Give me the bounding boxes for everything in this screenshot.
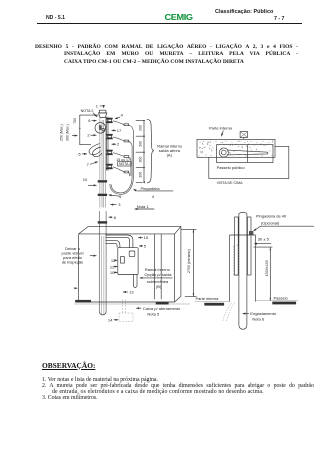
dimension 700 / 250-300 chain bbox=[60, 115, 99, 145]
meter box (section, dashed) bbox=[234, 245, 239, 275]
callout 6 (loops) bbox=[78, 152, 87, 157]
passeio outline step bbox=[209, 146, 289, 178]
pole (lower elevation, below break) bbox=[99, 211, 106, 315]
svg-text:Pingadeira de 40: Pingadeira de 40 bbox=[256, 214, 287, 219]
svg-text:1: 1 bbox=[96, 104, 99, 109]
callout 7 bbox=[87, 162, 98, 167]
svg-text:Parte interna: Parte interna bbox=[209, 125, 233, 130]
pole (upper elevation) bbox=[99, 110, 106, 207]
pole clamp band A bbox=[98, 180, 107, 182]
conduit right (section) bbox=[247, 217, 251, 275]
ground hatch bar mid bbox=[156, 302, 169, 305]
ground hatch bar left bbox=[75, 300, 91, 303]
masonry speckles bbox=[199, 141, 273, 157]
callout 12 bbox=[110, 264, 117, 269]
pole square (plan) bbox=[240, 132, 247, 140]
conduit left (section) bbox=[235, 217, 239, 275]
label Ramal interno opcao B bbox=[144, 267, 172, 289]
svg-text:30 ± 5: 30 ± 5 bbox=[258, 237, 270, 242]
mureta wall (3D) top edges bbox=[79, 226, 181, 234]
svg-text:de inspeção: de inspeção bbox=[62, 260, 84, 265]
svg-text:Opção p/ saída: Opção p/ saída bbox=[144, 272, 172, 277]
svg-text:Passeio: Passeio bbox=[274, 296, 289, 301]
box window bbox=[129, 251, 135, 257]
svg-text:7: 7 bbox=[87, 162, 90, 167]
ground hatch bar passeio bbox=[272, 302, 296, 305]
svg-text:700: 700 bbox=[73, 118, 77, 124]
header rule bbox=[37, 23, 302, 24]
secondary rack bar bbox=[106, 117, 108, 171]
svg-text:Passeio público: Passeio público bbox=[217, 165, 246, 170]
svg-text:4: 4 bbox=[143, 181, 145, 185]
weatherhead (cabecote) bbox=[99, 113, 107, 118]
brace for ramal interno A bbox=[147, 119, 154, 183]
svg-text:Engastamento: Engastamento bbox=[250, 311, 277, 316]
svg-text:8: 8 bbox=[114, 215, 117, 220]
svg-text:Parte interna: Parte interna bbox=[196, 296, 220, 301]
meter bbox=[121, 257, 125, 264]
dimension chain 200 x4 bbox=[136, 120, 145, 184]
NOTA 4 boxed label bbox=[118, 162, 132, 166]
NOTA 2 label bbox=[81, 109, 98, 117]
pole clamp band C bbox=[98, 221, 107, 223]
callout 14 bbox=[108, 317, 118, 322]
svg-text:200: 200 bbox=[139, 157, 143, 163]
label Pingadeira de 40 bbox=[253, 214, 314, 232]
svg-text:300 (Máx.): 300 (Máx.) bbox=[65, 124, 69, 141]
svg-text:Nota 1: Nota 1 bbox=[137, 204, 150, 209]
callout 15 bbox=[138, 235, 149, 240]
svg-text:6: 6 bbox=[88, 118, 91, 123]
callout 11 bbox=[111, 258, 117, 263]
svg-text:200: 200 bbox=[139, 141, 143, 147]
ground line passeio bbox=[255, 300, 298, 302]
callout 5 (elbow) bbox=[139, 244, 147, 249]
header: page number bbox=[274, 16, 284, 22]
svg-text:Caixa p/ aterramento: Caixa p/ aterramento bbox=[143, 306, 181, 311]
label 15 ou 17 bbox=[116, 158, 130, 162]
wire connector 4 bbox=[124, 171, 129, 173]
ground line (left view) bbox=[74, 303, 190, 305]
callout 2 (pole) bbox=[87, 133, 96, 138]
pole clamp band B bbox=[98, 194, 107, 196]
conduit sweep (plan) bbox=[219, 148, 268, 157]
dimension 1500 +- 100 bbox=[265, 247, 271, 301]
header: CEMIG logo bbox=[165, 12, 193, 21]
wire connector 2 bbox=[124, 140, 129, 142]
header: classification bbox=[215, 9, 273, 15]
svg-text:Nota 5: Nota 5 bbox=[147, 312, 160, 317]
dashed conduit under wall bbox=[223, 303, 235, 322]
svg-text:Nota 6: Nota 6 bbox=[252, 317, 265, 322]
service wires from insulators bbox=[113, 121, 133, 177]
document title bbox=[35, 44, 298, 67]
label Caixa p/ aterramento bbox=[136, 306, 181, 317]
svg-text:subterrânea: subterrânea bbox=[147, 279, 169, 284]
callout 5 (loop) bbox=[109, 194, 123, 199]
observation notes bbox=[42, 361, 95, 370]
svg-text:5: 5 bbox=[119, 194, 122, 199]
callout 2 (rack) bbox=[112, 142, 120, 147]
mureta wall bottom edges bbox=[79, 296, 181, 302]
insulator (roldana) 3 bbox=[107, 150, 113, 155]
pole (section) bbox=[239, 212, 247, 329]
dimension 30 +- 5 bbox=[254, 237, 273, 247]
detail circle on pole bbox=[95, 123, 106, 134]
ground line interna bbox=[195, 301, 230, 303]
svg-text:2: 2 bbox=[117, 142, 120, 147]
svg-text:(A): (A) bbox=[167, 152, 173, 157]
Nota 1 label bbox=[135, 204, 155, 209]
callout 10 (box) bbox=[110, 270, 117, 275]
svg-text:2700 (mínimo): 2700 (mínimo) bbox=[187, 249, 191, 273]
callout 17 bbox=[112, 128, 122, 133]
svg-text:15: 15 bbox=[144, 235, 149, 240]
svg-text:NOTA 2: NOTA 2 bbox=[81, 109, 94, 113]
svg-text:200: 200 bbox=[139, 125, 143, 131]
Pingadeira label bbox=[134, 186, 174, 199]
callout 13 bbox=[123, 290, 134, 295]
callout 10 bbox=[83, 177, 97, 186]
svg-text:(Opcional): (Opcional) bbox=[261, 221, 280, 226]
svg-text:VISTA DE CIMA: VISTA DE CIMA bbox=[217, 181, 243, 185]
svg-text:Pingadeira: Pingadeira bbox=[141, 186, 161, 191]
dimension 2700 minimo bbox=[181, 229, 197, 296]
leader option B bbox=[140, 277, 173, 279]
svg-text:3: 3 bbox=[118, 202, 121, 207]
svg-text:Ramal interno: Ramal interno bbox=[145, 267, 171, 272]
svg-text:4: 4 bbox=[152, 194, 155, 199]
svg-text:5: 5 bbox=[144, 244, 147, 249]
callout 6 (upper) bbox=[88, 118, 96, 123]
meter box CM bbox=[118, 248, 138, 275]
svg-text:4: 4 bbox=[121, 113, 124, 118]
svg-text:2: 2 bbox=[87, 133, 90, 138]
label Deixar o poste visivel bbox=[61, 246, 84, 265]
label Ramal interno saida aerea (A) bbox=[157, 144, 183, 158]
svg-text:1500±100: 1500±100 bbox=[265, 260, 269, 276]
dashed caixa de aterramento bbox=[119, 313, 133, 322]
meter box (plan) bbox=[217, 145, 273, 163]
svg-text:250 (Máx.): 250 (Máx.) bbox=[60, 124, 64, 141]
label Parte interna (plan) bbox=[209, 125, 233, 136]
conduit elbow 1 (pole to box) bbox=[105, 235, 132, 248]
callout 8 bbox=[109, 215, 117, 220]
ground hatch bar interna bbox=[204, 303, 224, 306]
label Engastamento Nota 6 bbox=[243, 311, 277, 321]
insulator (roldana) 1 bbox=[107, 118, 113, 123]
insulator (roldana) 4 bbox=[107, 164, 113, 169]
service drip loop (big) bbox=[110, 176, 134, 194]
svg-text:17: 17 bbox=[117, 128, 122, 133]
svg-text:10: 10 bbox=[83, 177, 88, 182]
callout 4 (rack top) bbox=[115, 113, 124, 119]
arrow for Deixar o poste bbox=[90, 255, 97, 257]
header: document number bbox=[46, 15, 65, 21]
wall edge arrow mark bbox=[74, 287, 77, 289]
svg-text:6: 6 bbox=[78, 152, 81, 157]
svg-text:13: 13 bbox=[129, 290, 134, 295]
insulator (roldana) 2 bbox=[107, 134, 113, 139]
wire connector 1 bbox=[124, 124, 129, 126]
wall section bbox=[230, 235, 256, 302]
masonry speckles extra bbox=[199, 140, 273, 157]
svg-text:(B): (B) bbox=[156, 284, 162, 289]
svg-text:200: 200 bbox=[139, 172, 143, 178]
svg-text:NOTA 4: NOTA 4 bbox=[119, 162, 131, 166]
callout 1 bbox=[96, 104, 104, 109]
callout 3 bbox=[110, 202, 121, 207]
svg-text:14: 14 bbox=[108, 317, 113, 322]
wall band (plan) bbox=[197, 139, 275, 157]
pingadeira lip bbox=[249, 232, 253, 236]
wire connector 3 bbox=[124, 156, 129, 158]
conduit below box (option B) bbox=[133, 275, 137, 288]
mureta wall vertical edges bbox=[79, 226, 181, 302]
drip loop wires at pole bbox=[89, 144, 102, 157]
dashed ground conduit bbox=[122, 300, 125, 314]
conduit elbow 2 (pole to box) bbox=[105, 241, 120, 248]
